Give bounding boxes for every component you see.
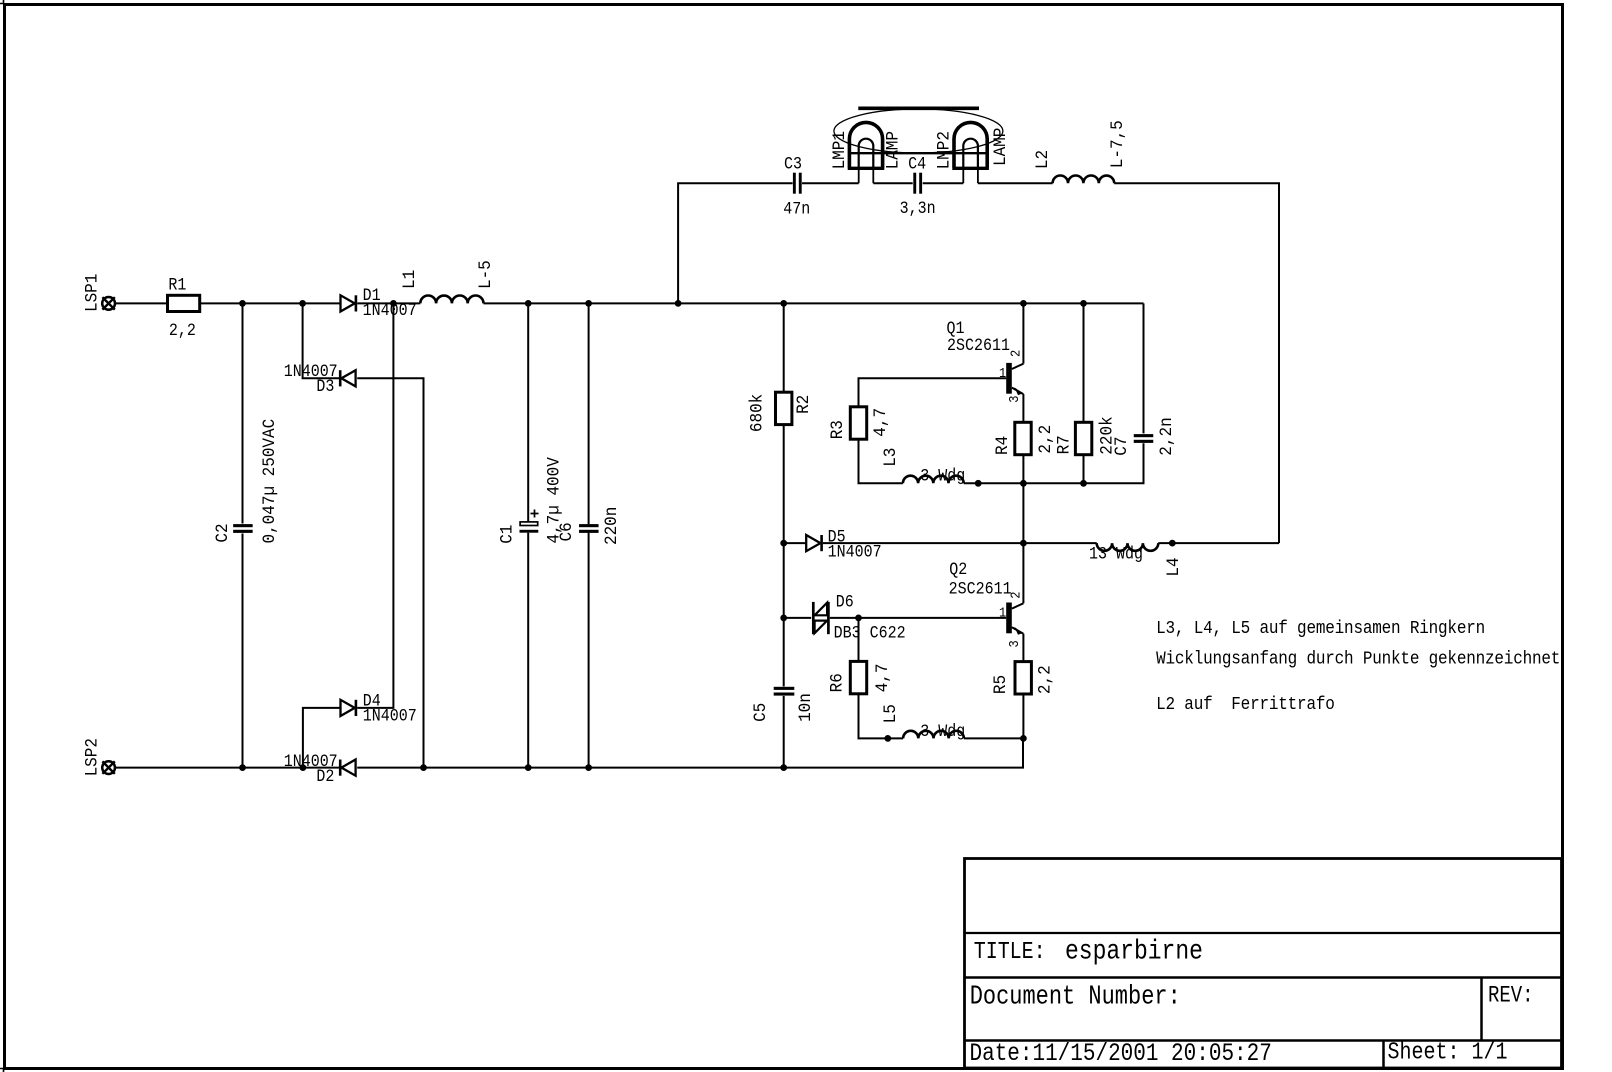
svg-text:LAMP: LAMP [992,128,1012,166]
wire: Q1 base wire [859,378,1007,407]
svg-text:2: 2 [1008,592,1024,599]
junction top rail / C3 riser [675,300,682,307]
lamp LMP1 filament [848,122,885,183]
svg-text:Date:11/15/2001 20:05:27: Date:11/15/2001 20:05:27 [970,1039,1272,1067]
lamp tube mid line [849,152,988,154]
wire: D4 riser from top rail [357,303,393,708]
wire: C4 to lamp2 pin1 [923,182,964,184]
junction top rail / R7 branch [1080,300,1087,307]
plus sign of C1 [531,510,539,518]
svg-text:L-7,5: L-7,5 [1108,120,1128,168]
terminal LSP1 [102,297,115,310]
svg-text:L3: L3 [881,448,901,467]
svg-text:Document Number:: Document Number: [970,983,1181,1012]
inductor L1 [420,296,483,304]
transistor Q2 [1006,603,1023,635]
diode D5 [806,535,821,551]
svg-text:R1: R1 [168,275,186,294]
wire: bottom rail D2 to L5 riser [357,738,1023,767]
svg-text:LSP2: LSP2 [83,738,103,776]
svg-text:LSP1: LSP1 [83,274,103,312]
svg-text:TITLE:: TITLE: [974,938,1046,965]
svg-text:DB3 C622: DB3 C622 [834,624,906,643]
junction top rail / C1 branch [525,300,532,307]
resistor R3 [850,407,866,439]
wire: R7 to bottom wire [1083,455,1085,484]
title block h-line 1 [965,932,1562,934]
svg-text:2SC2611: 2SC2611 [949,580,1012,599]
lamp tube top bar [858,107,979,111]
svg-text:L-5: L-5 [476,260,496,289]
winding start dot L3 [975,480,982,487]
junction top rail / C6 branch [585,300,592,307]
resistor R6 [850,661,866,693]
wire: L2 to right riser [1114,183,1279,543]
resistor R7 [1075,422,1091,454]
junction bottom rail / D3 drop [420,764,427,771]
junction top rail / C2 branch [239,300,246,307]
frame corner tick bottom-left [0,1069,4,1072]
winding start dot L5 [884,735,891,742]
wire: D5 anode lead [784,542,806,544]
svg-text:1N4007: 1N4007 [363,707,417,726]
resistor R5 [1015,662,1031,694]
title block outer box [965,859,1562,1069]
wire: Q2 emitter to R5 [1022,634,1024,662]
wire: L4 to right riser [1158,542,1279,544]
junction bottom rail / C2 branch [239,764,246,771]
svg-text:REV:: REV: [1488,984,1534,1009]
svg-text:2,2: 2,2 [169,321,196,340]
capacitor C4 [913,173,922,194]
svg-text:L3, L4, L5 auf gemeinsamen Rin: L3, L4, L5 auf gemeinsamen Ringkern [1156,619,1485,639]
svg-text:esparbirne: esparbirne [1065,936,1203,968]
svg-text:0,047µ 250VAC: 0,047µ 250VAC [261,419,281,544]
wire: R2 rail upper [783,303,785,392]
wire: C7 branch upper [1143,303,1145,433]
junction D5 row / rail [780,540,787,547]
svg-text:C5: C5 [752,703,772,722]
junction bottom rail / D4 branch [300,764,307,771]
svg-text:R2: R2 [794,395,814,414]
wire: C2 branch lower [242,534,244,768]
wire: C6 branch lower [588,533,590,768]
title block v-line REV [1480,978,1483,1041]
lamp tube envelope ellipse [834,109,1003,153]
wire: C5 to bottom rail [783,696,785,768]
svg-text:3: 3 [1006,395,1022,402]
wire: D5 to Q2 collector node [823,542,1097,544]
svg-text:2,2: 2,2 [1036,425,1056,454]
junction top rail / D4 riser [390,300,397,307]
junction Q1 emitter bottom [1020,480,1027,487]
wire: rail D6 node to C5 [783,618,785,687]
terminal LSP2 [102,761,115,774]
junction top rail / Q1 collector [1020,300,1027,307]
svg-text:220n: 220n [602,507,622,545]
capacitor C1 (electrolytic, polarized) [520,522,539,533]
diac D6 (DB3) [813,602,828,634]
junction D5 row / Q2 collector [1020,540,1027,547]
resistor R4 [1015,422,1031,454]
svg-text:R7: R7 [1055,435,1075,454]
wire: lamp1 pin2 to C4 [873,182,912,184]
wire: D3 cathode riser [303,303,340,378]
wire: Q1 collector riser [1022,303,1024,363]
svg-text:3 Wdg: 3 Wdg [920,467,965,486]
svg-text:1N4007: 1N4007 [828,543,882,562]
svg-text:R3: R3 [828,420,848,439]
svg-text:D2: D2 [316,767,334,786]
winding start dot L4 [1169,540,1176,547]
capacitor C3 [793,173,802,194]
svg-text:L2 auf Ferrittrafo: L2 auf Ferrittrafo [1156,695,1335,715]
wire: top rail (LSP1 to C7 branch) [115,302,167,304]
wire: D3 anode to drop [357,378,423,767]
svg-text:47n: 47n [783,200,810,219]
svg-text:R6: R6 [828,673,848,692]
wire: C1 branch lower [527,533,529,768]
wire: D6 to Q2 base [830,617,1006,619]
svg-text:C4: C4 [908,155,926,174]
capacitor C2 [233,524,253,533]
wire: R7 branch upper [1083,303,1085,422]
wire: R4 to bottom node [1022,455,1024,484]
diode D4 [341,700,356,716]
inductor L5 [903,731,964,739]
resistor R2 [776,392,792,424]
wire: R3 to L3 [859,439,903,483]
svg-text:Sheet: 1/1: Sheet: 1/1 [1388,1039,1508,1066]
inductor L4 [1097,543,1159,551]
svg-text:L1: L1 [400,270,420,289]
junction D6 row / rail [780,615,787,622]
svg-text:Q2: Q2 [949,560,967,579]
junction R7 bottom [1080,480,1087,487]
svg-text:4,7: 4,7 [873,664,893,693]
junction bottom rail / C6 branch [585,764,592,771]
svg-text:4,7: 4,7 [871,408,891,437]
wire: R2 rail to D5 node [783,425,785,543]
wire: bottom rail (LSP2 to D2) [115,767,342,769]
wire: top rail L1 to C7 branch [484,302,1144,304]
title block v-line Sheet [1382,1041,1385,1069]
junction top rail / D3 branch [299,300,306,307]
wire: bottom node to D5 row [1022,483,1024,543]
svg-text:L4: L4 [1164,557,1184,576]
capacitor C6 [579,524,599,533]
wire: C6 branch upper [588,303,590,524]
svg-text:R4: R4 [993,436,1013,455]
wire: Q2 collector riser [1022,543,1024,603]
capacitor C7 [1134,434,1154,443]
svg-text:1N4007: 1N4007 [363,301,417,320]
wire: lamp2 pin2 to L2 [978,182,1053,184]
wire: C1 branch upper [527,303,529,522]
junction bottom rail / C5 branch [780,764,787,771]
wire: R6 to L5 row [859,694,904,739]
diode D1 [341,295,356,311]
svg-text:10n: 10n [796,693,816,722]
svg-text:Wicklungsanfang durch Punkte g: Wicklungsanfang durch Punkte gekennzeich… [1156,650,1560,670]
frame corner tick top-left [0,0,4,4]
wire: R5 to bottom node [1022,694,1024,738]
svg-text:C2: C2 [213,523,233,542]
resistor R1 [168,295,200,311]
svg-text:C1: C1 [498,525,518,544]
junction D6 row / R6 branch [855,615,862,622]
wire: D6 left lead [784,617,812,619]
svg-text:LMP2: LMP2 [935,131,955,169]
svg-text:2: 2 [1008,350,1024,357]
svg-text:2SC2611: 2SC2611 [947,336,1010,355]
svg-text:680k: 680k [748,394,768,432]
wire: top rail D1 to L1 [357,302,420,304]
wire: C3 riser [678,183,793,303]
junction top rail / R2 branch [780,300,787,307]
wire: rail D5 to D6 node [783,543,785,618]
svg-text:R5: R5 [991,675,1011,694]
svg-text:LAMP: LAMP [884,131,904,169]
inductor L3 [903,476,964,484]
svg-text:L5: L5 [881,704,901,723]
capacitor C5 [774,687,795,696]
wire: C2 branch upper [242,303,244,523]
svg-text:D3: D3 [316,377,334,396]
wire: L3 to C7 bottom [964,443,1144,483]
svg-text:3,3n: 3,3n [900,199,936,218]
wire: L5 to R5 bottom node [964,737,1024,739]
diode D2 [340,760,355,776]
wire: C3 to lamp1 pin1 [802,182,859,184]
svg-text:C7: C7 [1112,437,1132,456]
junction bottom rail / C1 branch [525,764,532,771]
svg-text:C3: C3 [784,155,802,174]
svg-text:13 Wdg: 13 Wdg [1089,545,1143,564]
diode D3 [340,370,355,386]
transistor Q1 [1006,363,1023,395]
svg-text:D6: D6 [836,593,854,612]
wire: R6 branch upper [858,618,860,661]
junction L5 / R5 bottom [1020,735,1027,742]
title block h-line 3 [965,1039,1562,1042]
wire: top rail R1 to D1 [200,302,341,304]
wire: Q1 emitter to R4 [1022,394,1024,422]
wire: D4 anode to bottom rail [303,708,341,768]
title block h-line 2 [965,976,1562,979]
lamp LMP2 filament [952,122,989,183]
svg-text:C6: C6 [557,522,577,541]
svg-text:LMP1: LMP1 [830,131,850,169]
svg-text:3 Wdg: 3 Wdg [920,722,965,741]
inductor L2 [1053,175,1115,183]
svg-text:L2: L2 [1033,150,1053,169]
svg-text:2,2: 2,2 [1036,665,1056,694]
svg-text:2,2n: 2,2n [1157,417,1177,455]
svg-text:3: 3 [1006,640,1022,647]
